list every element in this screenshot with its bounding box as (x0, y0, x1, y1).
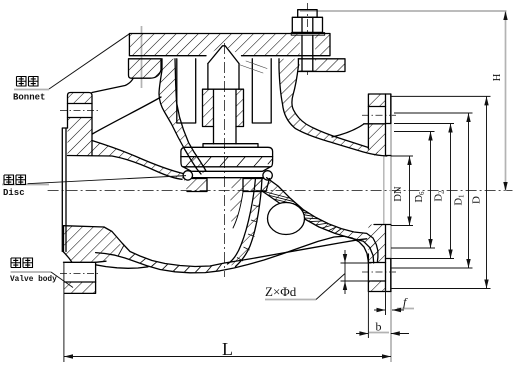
saddle line left (92, 97, 161, 134)
bonnet U1 hatched plate (64, 34, 387, 294)
D2 arrows (448, 124, 452, 133)
wire main horizontal axis centerline (48, 3, 513, 277)
D arrows (484, 96, 488, 105)
outlet bore lines (386, 155, 391, 157)
disc lower band (181, 157, 273, 167)
throat right wall boundary (233, 192, 243, 228)
svg-text:Z×Φd: Z×Φd (265, 284, 297, 299)
bolt Q1 washer (291, 33, 325, 36)
left flange ring sections (68, 93, 93, 104)
valve stem upper column (208, 64, 239, 90)
bottom wall rail G outer (96, 265, 148, 269)
bonnet skirt left (177, 59, 196, 123)
left flange ring outline (68, 93, 93, 156)
body left wall band rails (159, 59, 201, 174)
guide bushing outline (203, 89, 244, 126)
disc T1 plate (181, 147, 273, 156)
label bonnet CN (17, 77, 39, 87)
left hub top line (92, 79, 133, 93)
svg-text:Valve body: Valve body (10, 276, 57, 284)
partition rails (228, 178, 256, 264)
dimension phi-d (344, 250, 346, 294)
bottom wall rail E (104, 227, 367, 267)
valve stem cone top (208, 46, 239, 64)
svg-text:DN: DN (393, 186, 404, 202)
dimension D6 (430, 132, 432, 249)
arrowheads (64, 11, 508, 359)
f arrows (377, 308, 386, 312)
svg-text:Disc: Disc (3, 188, 25, 198)
wire left flange hole axes (60, 110, 99, 112)
label disc CN (4, 175, 26, 185)
dimension f (374, 309, 386, 311)
saddle line right (332, 124, 364, 137)
guide bushing sections (203, 89, 214, 126)
throat right wall sliver (230, 179, 243, 229)
bonnet U1 plate outline (129, 34, 330, 56)
seat bead circle left (183, 171, 192, 180)
seat bead circle right (263, 171, 272, 180)
dimension L (64, 356, 391, 358)
D1 arrows (466, 113, 470, 122)
disc washer cap (203, 144, 258, 148)
wire right flange hole axes (362, 114, 396, 116)
ladder rungs bottom band (118, 190, 262, 273)
leader valve body (51, 272, 73, 288)
left flange bolt hole edges (68, 103, 93, 105)
bolt Q1 shank (301, 35, 303, 71)
L arrows (64, 354, 73, 358)
DN arrows (407, 156, 411, 165)
D6 arrows (428, 132, 432, 141)
body left side wall band (159, 59, 206, 174)
bolt Q1 stud end (298, 10, 317, 18)
svg-text:Bonnet: Bonnet (13, 93, 45, 103)
valve stem (213, 89, 215, 144)
thin lines right of cone (239, 61, 267, 73)
right flange bolt hole edges (368, 106, 385, 108)
wire bolt axis right (306, 3, 308, 77)
body left top flange lip outline (129, 59, 162, 78)
inlet bore lines (68, 156, 183, 180)
inlet top wall upper rail (92, 141, 184, 174)
leader for Z x phi d (316, 274, 345, 300)
seat contact lines (193, 170, 263, 172)
b arrows (359, 331, 368, 335)
body right wall band rails (279, 59, 387, 156)
dimension DN (409, 156, 411, 226)
extension lines right stack (391, 95, 491, 97)
dimension D2 (450, 124, 452, 259)
outlet diagonal band rails (267, 178, 378, 262)
svg-text:H: H (492, 73, 503, 81)
body right lip outline (298, 59, 345, 72)
seat ring outline (187, 179, 207, 192)
leader disc (28, 176, 187, 184)
outlet window ellipse (268, 203, 305, 235)
main outlines (62, 10, 391, 294)
left flange plate (raised face) (62, 128, 67, 252)
body right top flange lip (298, 59, 345, 72)
outlet diagonal wall band (262, 178, 378, 263)
bottom wall rail F (96, 236, 369, 273)
wire main vertical axis centerline (224, 43, 226, 277)
white cutouts: bolt hole in plate (300, 34, 315, 72)
bolt Q1 nut (292, 17, 322, 32)
dimension H (505, 11, 507, 191)
body left top flange lip (129, 59, 162, 78)
svg-text:b: b (376, 320, 382, 334)
svg-text:D: D (471, 196, 483, 204)
right flange outline (368, 94, 390, 292)
bonnet skirt right (252, 59, 271, 123)
seat ring sections (184, 179, 208, 192)
svg-text:L: L (222, 339, 233, 359)
partition band under seat (228, 178, 263, 267)
inlet top wall band (92, 141, 184, 180)
right flange ring sections (368, 94, 385, 107)
dimension D (486, 96, 488, 288)
dimension b (356, 333, 368, 335)
H arrows (503, 11, 507, 20)
body right side wall band (279, 59, 387, 156)
disc hatch ticks (186, 157, 273, 166)
dimension D1 (468, 113, 470, 268)
phi-d arrows (343, 254, 347, 263)
right flange raised face (386, 94, 391, 292)
label valve body CN (11, 258, 33, 268)
leader bonnet (49, 34, 129, 89)
